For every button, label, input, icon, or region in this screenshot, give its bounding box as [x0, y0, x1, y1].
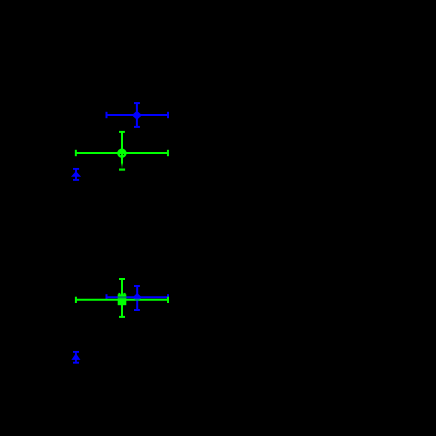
fading lower error segment: [121, 163, 123, 168]
blue diamond marker (bottom): [133, 293, 142, 302]
bottom panel : small blue triangle data point, y error bar: [73, 352, 79, 363]
top panel : small blue triangle data point, y error bar: [73, 169, 79, 180]
top panel : blue diamond data point, y error bar: [134, 103, 140, 127]
lower error cap: [119, 169, 125, 171]
top panel : blue diamond data point, x error bar: [107, 112, 169, 118]
green open circle marker: [118, 150, 125, 157]
top panel : green open-circle data point, y error bar: [119, 132, 125, 164]
bottom panel : blue diamond data point, x error bar: [107, 294, 169, 300]
blue line blend band across square: [118, 296, 127, 298]
square top bumps: [118, 293, 120, 295]
bottom panel : green square data point, x error bar: [76, 297, 168, 303]
blue diamond marker: [132, 111, 142, 120]
small blue triangle marker: [71, 171, 81, 177]
top panel : green open-circle data point, x error bar: [76, 150, 168, 156]
bottom panel : green square data point, y error bar: [119, 279, 125, 317]
small blue triangle marker: [71, 353, 80, 360]
bottom panel : blue diamond data point, y error bar: [134, 286, 140, 310]
green square marker: [118, 294, 127, 305]
circle upper-half fill (downscale blend): [119, 150, 124, 153]
